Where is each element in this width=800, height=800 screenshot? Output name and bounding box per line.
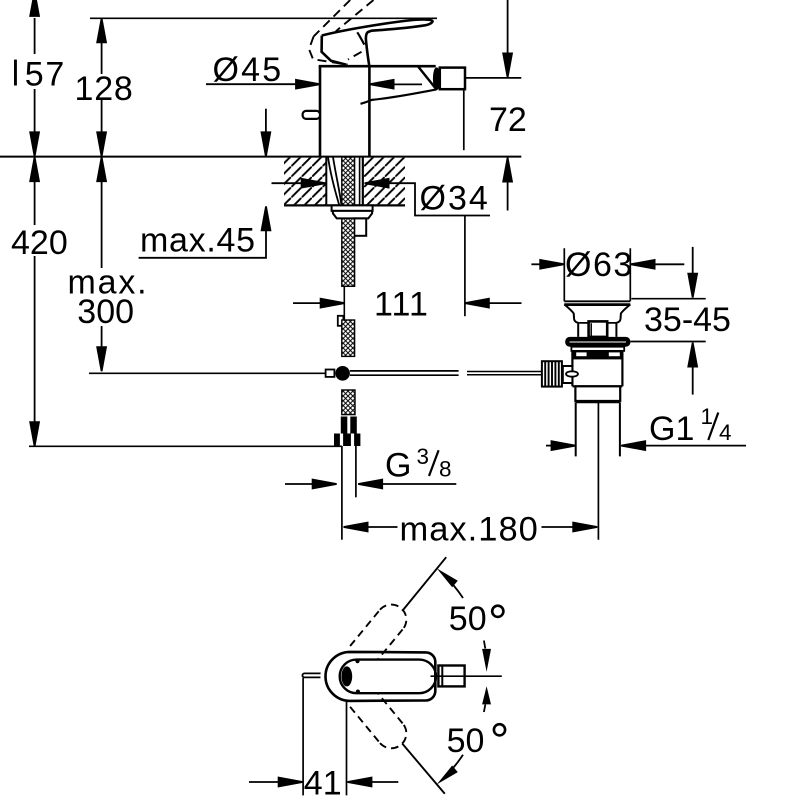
- svg-text:72: 72: [489, 101, 527, 139]
- svg-text:max.45: max.45: [140, 221, 256, 259]
- svg-text:50: 50: [449, 600, 487, 638]
- svg-text:8: 8: [439, 456, 452, 481]
- svg-text:420: 420: [11, 224, 68, 262]
- svg-text:128: 128: [75, 70, 134, 108]
- svg-text:35-45: 35-45: [644, 301, 731, 339]
- svg-text:300: 300: [77, 293, 134, 331]
- svg-text:41: 41: [304, 764, 342, 800]
- svg-text:G1: G1: [649, 410, 694, 448]
- svg-text:57: 57: [25, 56, 66, 94]
- svg-text:1: 1: [701, 404, 714, 429]
- svg-text:3: 3: [417, 444, 430, 469]
- svg-text:Ø45: Ø45: [213, 51, 284, 89]
- svg-text:111: 111: [374, 285, 429, 323]
- svg-text:Ø63: Ø63: [565, 246, 634, 284]
- svg-text:G: G: [385, 446, 411, 484]
- svg-text:50: 50: [447, 722, 485, 760]
- svg-text:max.180: max.180: [400, 510, 539, 548]
- svg-text:4: 4: [719, 420, 732, 445]
- svg-text:Ø34: Ø34: [420, 180, 490, 218]
